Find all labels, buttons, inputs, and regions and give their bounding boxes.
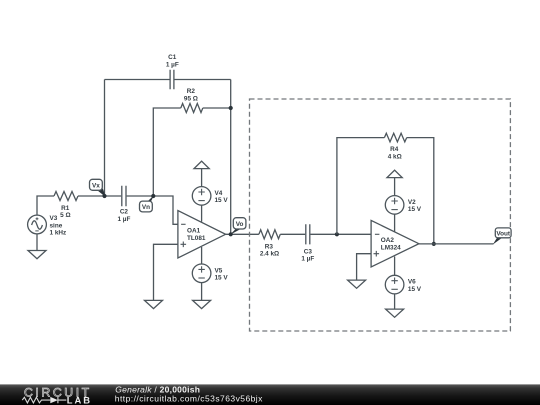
junction dot C3 R4 bbox=[335, 232, 339, 236]
node flag Vout bbox=[493, 228, 511, 245]
capacitor C2 bbox=[122, 186, 126, 206]
resistor R2 bbox=[181, 104, 203, 113]
svg-text:http://circuitlab.com/c53s763v: http://circuitlab.com/c53s763v56bjx bbox=[115, 393, 263, 403]
label R2 95 ohm bbox=[184, 88, 198, 103]
wire OA1 noninverting input to ground bbox=[154, 244, 178, 300]
capacitor C1 bbox=[170, 70, 174, 89]
label OA1 TL081 bbox=[187, 227, 206, 242]
op-amp OA1 bbox=[178, 211, 226, 258]
svg-text:15 V: 15 V bbox=[215, 275, 229, 282]
svg-text:Vn: Vn bbox=[142, 204, 150, 211]
wire R2 to riser bbox=[203, 107, 231, 109]
wire Vx riser bbox=[104, 80, 106, 197]
svg-text:1 µF: 1 µF bbox=[301, 256, 314, 263]
svg-text:V5: V5 bbox=[215, 267, 223, 274]
svg-text:Vout: Vout bbox=[496, 230, 511, 237]
wire riser to R4 bbox=[337, 138, 385, 235]
label V4 15V bbox=[215, 190, 229, 204]
svg-text:15 V: 15 V bbox=[408, 206, 422, 213]
op-amp OA2 bbox=[371, 220, 419, 267]
junction dot R4 output bbox=[432, 242, 436, 246]
svg-text:C1: C1 bbox=[168, 54, 177, 61]
wire V3 top to R1 bbox=[37, 196, 54, 215]
wire R4 to output bbox=[407, 138, 434, 244]
wire OA1 output bbox=[226, 233, 259, 235]
svg-text:1 µF: 1 µF bbox=[117, 216, 130, 223]
logo resistor diode squiggle bbox=[22, 397, 66, 403]
svg-text:V2: V2 bbox=[408, 199, 416, 206]
junction dot output feedback bbox=[229, 232, 233, 236]
svg-text:1 µF: 1 µF bbox=[166, 62, 179, 69]
svg-text:V6: V6 bbox=[408, 279, 416, 286]
wire OA2 output bbox=[419, 243, 494, 245]
wire C2 to OA1 inverting input bbox=[127, 196, 178, 224]
svg-text:R1: R1 bbox=[61, 205, 70, 212]
svg-text:LM324: LM324 bbox=[381, 245, 401, 252]
footer bar bbox=[0, 384, 540, 405]
resistor R4 bbox=[384, 133, 406, 142]
svg-text:15 V: 15 V bbox=[215, 197, 229, 204]
svg-text:4 kΩ: 4 kΩ bbox=[388, 153, 402, 160]
svg-text:OA2: OA2 bbox=[381, 237, 395, 244]
node flag Vo bbox=[230, 218, 246, 235]
dashed subcircuit box bbox=[250, 99, 511, 331]
label OA2 LM324 bbox=[381, 237, 401, 252]
label V5 15V bbox=[215, 267, 229, 281]
power arrow V4 bbox=[194, 161, 209, 186]
svg-text:OA1: OA1 bbox=[187, 227, 201, 234]
ground OA2 plus bbox=[348, 280, 366, 288]
capacitor C3 bbox=[306, 224, 310, 244]
ground V3 bbox=[28, 251, 46, 259]
ground V6 bbox=[386, 309, 404, 317]
label C1 1uF bbox=[166, 54, 179, 68]
label C2 1uF bbox=[117, 208, 130, 223]
svg-text:C3: C3 bbox=[304, 248, 313, 255]
svg-text:5 Ω: 5 Ω bbox=[60, 212, 70, 219]
svg-text:R3: R3 bbox=[265, 243, 274, 250]
svg-text:2.4 kΩ: 2.4 kΩ bbox=[260, 251, 279, 258]
svg-text:95 Ω: 95 Ω bbox=[184, 96, 198, 103]
resistor R3 bbox=[259, 230, 280, 239]
label R4 4k bbox=[388, 146, 402, 160]
wire top C1 left bbox=[105, 79, 171, 81]
svg-text:C2: C2 bbox=[120, 208, 129, 215]
feedback riser wire bbox=[230, 80, 232, 235]
node flag Vn bbox=[140, 195, 155, 212]
label V2 15V bbox=[408, 199, 422, 213]
junction dot Vx bbox=[102, 194, 106, 198]
wire V3 bottom bbox=[36, 234, 38, 251]
voltage source V6 bbox=[385, 257, 404, 310]
power arrow V2 bbox=[387, 170, 402, 195]
label V3 sine 1 kHz bbox=[50, 215, 67, 236]
svg-text:sine: sine bbox=[50, 222, 63, 229]
voltage source V2 bbox=[385, 196, 404, 232]
voltage source V3 sine bbox=[28, 215, 47, 234]
svg-text:Vo: Vo bbox=[236, 221, 244, 228]
svg-text:R2: R2 bbox=[187, 88, 196, 95]
label R1 5 ohm bbox=[60, 205, 70, 219]
wire R1 to C2 bbox=[78, 195, 121, 197]
svg-text:TL081: TL081 bbox=[187, 235, 206, 242]
label C3 1uF bbox=[301, 248, 314, 262]
svg-text:15 V: 15 V bbox=[408, 286, 422, 293]
svg-text:1 kHz: 1 kHz bbox=[50, 229, 67, 236]
voltage source V4 bbox=[192, 187, 211, 222]
wire C1 to feedback riser bbox=[174, 79, 231, 81]
svg-text:V3: V3 bbox=[50, 215, 58, 222]
ground OA1 plus bbox=[145, 300, 163, 308]
junction dot Vn bbox=[151, 194, 155, 198]
wire C3 to OA2 inverting input bbox=[310, 233, 371, 235]
wire Vn riser and R2 left bbox=[153, 108, 181, 196]
label R3 2.4k bbox=[260, 243, 279, 257]
junction dot R2 feedback bbox=[229, 106, 233, 110]
wire OA2 noninverting input to ground bbox=[357, 254, 372, 280]
svg-text:V4: V4 bbox=[215, 190, 223, 197]
ground V5 bbox=[193, 300, 211, 308]
wire R3 to C3 bbox=[280, 233, 305, 235]
label V6 15V bbox=[408, 279, 422, 293]
svg-text:R4: R4 bbox=[390, 146, 399, 153]
svg-text:LAB: LAB bbox=[67, 394, 92, 405]
svg-text:Vx: Vx bbox=[92, 182, 100, 189]
voltage source V5 bbox=[192, 247, 211, 300]
resistor R1 bbox=[54, 192, 78, 201]
node flag Vx bbox=[90, 179, 106, 197]
